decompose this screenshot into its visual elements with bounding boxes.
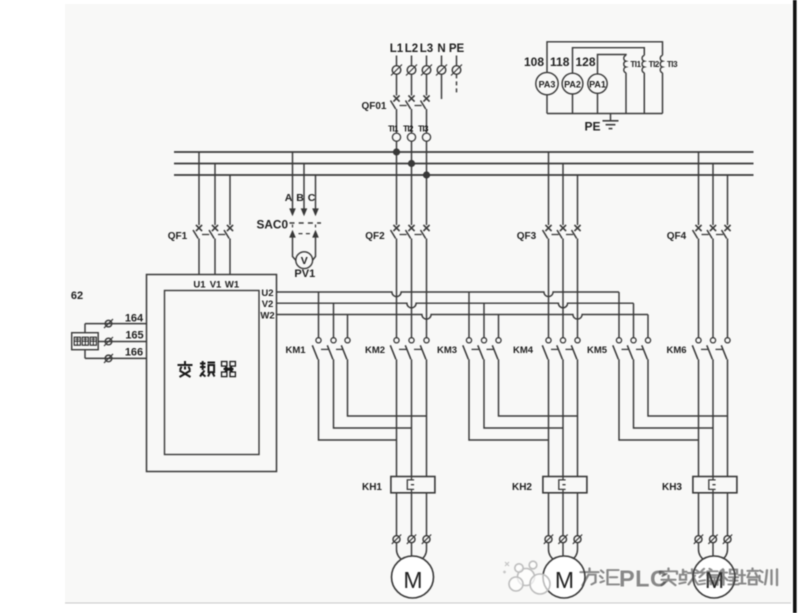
CT secondary coil TI3	[660, 55, 678, 113]
motor 3 terminal 2	[710, 536, 717, 543]
bus bar phase A	[174, 151, 754, 153]
bus bar phase B	[174, 163, 754, 165]
wire KM3 pole 3 to motor column	[499, 359, 578, 416]
svg-text:QF01: QF01	[361, 101, 386, 112]
junction L1/bus A	[393, 148, 400, 155]
motor 3 terminal 3	[724, 536, 731, 543]
contactor KM6 pole 1	[692, 338, 708, 360]
svg-text:A: A	[285, 192, 293, 204]
motor 2 terminal 3	[574, 536, 581, 543]
svg-text:62: 62	[71, 290, 83, 302]
PE ground of ammeter panel	[584, 114, 618, 134]
current transformer TI1 primary	[388, 125, 400, 153]
svg-text:W2: W2	[260, 311, 274, 322]
inverter text 变频器	[178, 361, 236, 377]
ammeter loop PA3-TI3	[547, 42, 663, 73]
node A tap from bus	[285, 152, 296, 216]
wire 164	[85, 312, 147, 328]
wire KH3 to motor terminal 3	[727, 477, 729, 536]
contactor KM3 pole 3	[492, 315, 501, 360]
svg-text:SAC0: SAC0	[257, 218, 289, 232]
pressure gauge connecting stubs	[84, 324, 86, 359]
terminal L2	[406, 56, 417, 96]
svg-text:KM2: KM2	[365, 345, 385, 356]
watermark logo	[509, 561, 550, 594]
inverter inner box	[165, 291, 260, 455]
motor 3 terminal 1	[695, 536, 702, 543]
svg-text:N: N	[437, 43, 445, 55]
svg-text:B: B	[296, 192, 304, 204]
breaker QF1 pole 3	[224, 175, 233, 275]
svg-text:164: 164	[125, 312, 144, 324]
motor M1	[392, 556, 434, 598]
CT secondary coil TI1	[624, 55, 642, 113]
contactor KM6 pole 3	[721, 338, 730, 360]
terminal N	[436, 56, 447, 100]
breaker QF2 pole 2	[406, 164, 422, 338]
terminal L3	[421, 56, 432, 96]
svg-text:KM6: KM6	[666, 345, 686, 356]
motor 1 terminal 1	[393, 536, 400, 543]
wire KH1 to motor terminal 1	[396, 477, 398, 536]
contactor KM3 pole 1	[463, 292, 479, 359]
wire KM1 pole 3 to motor column	[348, 359, 427, 416]
contactor KM6 pole 2	[707, 338, 723, 360]
wire KH1 to motor terminal 3	[426, 477, 428, 536]
svg-text:KH1: KH1	[362, 482, 382, 493]
wire KH2 to motor terminal 2	[562, 477, 564, 536]
contactor KM2 pole 1	[390, 338, 406, 360]
breaker QF2 pole 3	[421, 175, 430, 338]
breaker QF01 pole 1	[391, 95, 407, 132]
wire KM1 pole 1 to motor column	[319, 359, 397, 440]
contactor KM1 pole 2	[327, 303, 343, 359]
breaker QF1 pole 2	[209, 164, 225, 275]
wire motor 1 phase 3 column	[426, 359, 428, 476]
svg-text:PE: PE	[584, 120, 600, 134]
svg-text:C: C	[308, 192, 316, 204]
node labels L1 L2 L3 N PE	[390, 43, 465, 55]
contactor KM1 pole 1	[312, 292, 328, 359]
thermal relay KH1	[362, 477, 435, 494]
contactor KM5 pole 2	[627, 303, 643, 359]
ammeter loop PA2-TI2	[573, 48, 645, 73]
wire KH2 to motor terminal 1	[548, 477, 550, 536]
wire motor 1 phase 1 column	[396, 359, 398, 476]
contactor KM2 pole 3	[420, 338, 429, 360]
wire KH2 to motor terminal 3	[577, 477, 579, 536]
node B tap from bus	[296, 164, 307, 217]
svg-text:TI3: TI3	[418, 125, 429, 134]
svg-text:166: 166	[125, 346, 143, 358]
svg-text:PV1: PV1	[294, 268, 315, 280]
bus bar phase C	[174, 174, 754, 176]
junction L3/bus C	[423, 171, 430, 178]
voltmeter PV1	[293, 237, 316, 280]
wire KM5 pole 3 to motor column	[648, 359, 728, 416]
CT secondary coil TI2	[642, 55, 660, 113]
svg-text:PE: PE	[449, 43, 465, 55]
wire 166	[85, 346, 147, 363]
terminal L1	[391, 56, 402, 96]
wire motor 2 phase 1 column	[548, 359, 550, 476]
node C tap from bus	[308, 175, 319, 216]
contactor KM1 pole 3	[341, 315, 350, 360]
wire motor 2 phase 3 column	[577, 359, 579, 476]
right edge black bar	[793, 0, 797, 613]
wire KM1 pole 2 to motor column	[334, 359, 412, 428]
wires motor 2 leads	[549, 543, 578, 561]
svg-text:M: M	[403, 567, 422, 593]
svg-text:TI1: TI1	[388, 125, 399, 134]
thermal relay KH3	[662, 477, 737, 494]
breaker QF3 pole 1	[543, 152, 559, 338]
wire motor 3 phase 1 column	[698, 359, 700, 476]
wires motor 1 leads	[397, 543, 427, 561]
ammeter panel bottom bus	[547, 113, 663, 115]
junction L2/bus B	[408, 160, 415, 167]
svg-text:128: 128	[575, 55, 595, 69]
breaker QF2 pole 1	[391, 152, 407, 338]
motor 2 terminal 1	[545, 536, 552, 543]
pressure gauge box 压力表	[72, 333, 99, 350]
inverter U1 outer box	[147, 275, 277, 472]
current transformer TI3 primary	[418, 125, 430, 176]
svg-text:PA1: PA1	[589, 79, 606, 89]
watermark text 方汇PLC实战编程培训	[581, 568, 620, 585]
wire KH3 to motor terminal 2	[712, 477, 714, 536]
contactor KM5 pole 3	[642, 315, 651, 360]
breaker QF3 pole 3	[572, 175, 581, 338]
svg-text:KM4: KM4	[513, 345, 534, 356]
svg-text:165: 165	[125, 329, 143, 341]
selector switch SAC0	[257, 218, 321, 238]
motor 1 terminal 2	[408, 536, 415, 543]
svg-text:PA2: PA2	[564, 79, 581, 89]
svg-text:KH2: KH2	[512, 482, 532, 493]
wire 165	[98, 329, 146, 346]
ammeter PA1	[588, 74, 607, 114]
svg-text:PLC: PLC	[619, 566, 668, 592]
contactor KM2 pole 2	[405, 338, 421, 360]
contactor KM4 pole 2	[557, 338, 573, 360]
wire KM3 pole 1 to motor column	[469, 359, 549, 440]
wire motor 3 phase 3 column	[727, 359, 729, 476]
breaker QF4 pole 2	[707, 164, 723, 338]
ammeter PA3	[536, 72, 558, 113]
wires motor 3 leads	[699, 543, 728, 561]
svg-text:U1: U1	[193, 280, 206, 291]
svg-text:U2: U2	[261, 288, 273, 299]
wire motor 1 phase 2 column	[411, 359, 413, 476]
contactor KM3 pole 2	[478, 303, 494, 359]
wire KH1 to motor terminal 2	[411, 477, 413, 536]
breaker QF4 pole 1	[693, 152, 709, 338]
contactor KM4 pole 1	[542, 338, 558, 360]
breaker QF01 pole 3	[421, 95, 430, 132]
wire KM5 pole 2 to motor column	[634, 359, 714, 428]
contactor KM4 pole 3	[571, 338, 580, 360]
svg-text:L3: L3	[420, 43, 433, 55]
breaker QF4 pole 3	[722, 175, 731, 338]
wire motor 2 phase 2 column	[562, 359, 564, 476]
svg-text:M: M	[555, 567, 574, 593]
ammeter PA2	[562, 73, 583, 113]
wire motor 3 phase 2 column	[712, 359, 714, 476]
svg-text:TI2: TI2	[649, 60, 660, 69]
svg-text:108: 108	[524, 55, 544, 69]
svg-text:L1: L1	[390, 43, 404, 55]
svg-text:W1: W1	[225, 280, 240, 291]
wire V2 output line	[277, 303, 634, 308]
svg-text:118: 118	[550, 55, 570, 69]
wire U2 output line	[277, 292, 620, 297]
current transformer TI2 primary	[403, 125, 415, 164]
wire W2 output line	[277, 315, 649, 320]
svg-text:L2: L2	[405, 43, 418, 55]
svg-text:TI2: TI2	[403, 125, 414, 134]
svg-text:TI3: TI3	[667, 60, 678, 69]
svg-text:TI1: TI1	[630, 60, 641, 69]
wire KM3 pole 2 to motor column	[484, 359, 563, 428]
svg-text:KH3: KH3	[662, 482, 682, 493]
motor M2	[543, 556, 585, 598]
svg-text:QF2: QF2	[365, 231, 385, 242]
svg-text:V1: V1	[210, 280, 222, 291]
thermal relay KH2	[512, 477, 587, 494]
svg-text:PA3: PA3	[539, 79, 556, 89]
svg-text:V2: V2	[262, 299, 274, 310]
svg-text:QF1: QF1	[168, 231, 188, 242]
svg-text:QF3: QF3	[517, 231, 537, 242]
motor M3	[693, 556, 735, 598]
svg-text:V: V	[301, 255, 308, 267]
svg-text:KM5: KM5	[587, 345, 608, 356]
breaker QF1 pole 1	[193, 152, 209, 275]
motor 1 terminal 3	[423, 536, 430, 543]
svg-text:KM1: KM1	[285, 345, 306, 356]
contactor KM5 pole 1	[613, 292, 629, 359]
motor 2 terminal 2	[560, 536, 567, 543]
wire KH3 to motor terminal 1	[698, 477, 700, 536]
breaker QF3 pole 2	[557, 164, 573, 338]
wire KM5 pole 1 to motor column	[619, 359, 699, 440]
svg-text:KM3: KM3	[437, 345, 457, 356]
terminal PE	[451, 56, 462, 96]
ammeter loop PA1-TI1	[598, 55, 627, 74]
breaker QF01 pole 2	[406, 95, 422, 132]
svg-text:QF4: QF4	[667, 231, 687, 242]
bottom page edge line	[65, 602, 791, 604]
